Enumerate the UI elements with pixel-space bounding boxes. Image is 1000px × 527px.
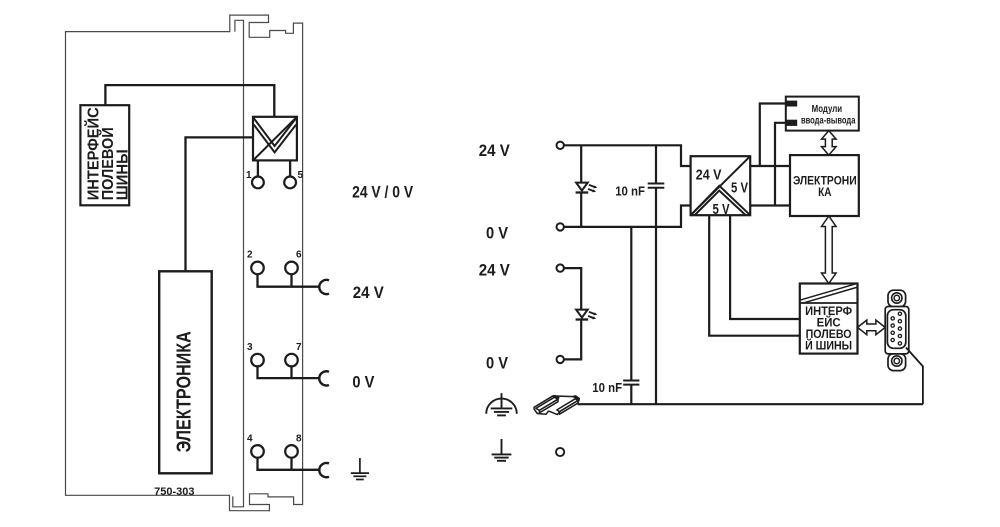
contact 6 xyxy=(285,250,302,275)
fieldbus interface box (left) xyxy=(80,105,131,205)
svg-text:1: 1 xyxy=(246,170,252,181)
shield clamp icon xyxy=(534,396,579,415)
svg-text:ЭЛЕКТРОНИКА: ЭЛЕКТРОНИКА xyxy=(173,331,196,452)
svg-text:6: 6 xyxy=(296,250,302,261)
wire converter bottom to fieldbus box inner xyxy=(730,215,800,319)
wire io modules pin1 xyxy=(760,104,786,167)
power jumper contact row 3/7 xyxy=(319,371,329,385)
dsub connector xyxy=(885,290,909,370)
svg-text:10 nF: 10 nF xyxy=(615,184,645,199)
io modules box xyxy=(786,97,859,131)
wires filter to contacts 1 and 5 xyxy=(258,160,290,176)
electronics box right xyxy=(790,155,859,216)
module internal separator line xyxy=(233,20,244,507)
svg-text:24 V: 24 V xyxy=(696,167,722,183)
LED D1 branch wire xyxy=(580,145,582,227)
svg-text:7: 7 xyxy=(296,342,302,353)
ground symbol bottom left xyxy=(492,439,512,461)
svg-text:4: 4 xyxy=(247,433,253,444)
svg-text:5 V: 5 V xyxy=(731,181,748,197)
svg-text:0 V: 0 V xyxy=(486,225,508,243)
svg-text:750-303: 750-303 xyxy=(154,486,194,498)
svg-text:КА: КА xyxy=(818,187,831,199)
wire row 3/7 xyxy=(258,366,321,378)
svg-text:Й ШИНЫ: Й ШИНЫ xyxy=(805,338,852,353)
svg-text:3: 3 xyxy=(247,342,253,353)
svg-text:24 V: 24 V xyxy=(353,284,384,302)
wire 24V group2 to LED branch xyxy=(564,268,581,309)
contact 1 xyxy=(246,170,264,188)
contact 5 xyxy=(284,170,303,188)
svg-text:ЭЛЕКТРОНИ: ЭЛЕКТРОНИ xyxy=(793,175,857,187)
terminal bottom left xyxy=(556,448,564,456)
capacitor C2 10nF xyxy=(623,227,639,404)
earth rail wire xyxy=(578,403,923,405)
contact 7 xyxy=(285,342,302,367)
wire 0V group1 to converter xyxy=(564,206,691,227)
svg-text:10 nF: 10 nF xyxy=(592,380,622,395)
LED D2 xyxy=(576,310,598,320)
ground symbol row 4/8 xyxy=(351,458,369,480)
DC converter box xyxy=(691,156,751,218)
wire electronics box to filter xyxy=(186,137,254,271)
svg-text:ввода-вывода: ввода-вывода xyxy=(801,115,856,126)
svg-text:24 V / 0 V: 24 V / 0 V xyxy=(352,183,413,201)
terminal 0V group2 xyxy=(557,356,564,363)
arrow io modules to electronics xyxy=(822,131,837,156)
svg-text:2: 2 xyxy=(247,250,253,261)
wire converter bottom to fieldbus box outer xyxy=(709,215,800,336)
svg-text:Модули: Модули xyxy=(812,104,843,115)
LED D1 xyxy=(576,183,598,193)
wire converter to electronics top xyxy=(750,165,790,167)
contact 8 xyxy=(285,433,302,457)
svg-text:24 V: 24 V xyxy=(479,142,510,160)
svg-text:5 V: 5 V xyxy=(713,202,730,218)
wire dsub to earth rail xyxy=(906,348,923,405)
svg-text:0 V: 0 V xyxy=(352,374,374,392)
power jumper contact row 4/8 xyxy=(319,463,329,477)
svg-text:8: 8 xyxy=(296,433,302,444)
filter box xyxy=(253,117,297,161)
contact 4 xyxy=(247,433,264,457)
svg-text:0 V: 0 V xyxy=(486,355,508,373)
wire fieldbus box to filter xyxy=(105,85,274,117)
terminal 24V group2 xyxy=(557,264,564,271)
module outline 750-303 housing xyxy=(66,15,303,511)
wire io modules pin2 xyxy=(775,123,786,206)
svg-text:5: 5 xyxy=(298,170,304,181)
svg-text:ШИНЫ: ШИНЫ xyxy=(114,149,131,200)
wire 24V group1 to converter xyxy=(564,145,691,166)
wire row 4/8 xyxy=(258,458,321,470)
electronics box (left) xyxy=(159,271,212,473)
svg-text:24 V: 24 V xyxy=(479,262,510,280)
contact 3 xyxy=(247,342,264,367)
arrow electronics to fieldbus interface xyxy=(822,216,837,284)
terminal 0V group1 xyxy=(557,223,564,230)
arrow fieldbus interface to dsub xyxy=(858,320,886,335)
contact 2 xyxy=(247,250,264,275)
capacitor C1 10nF xyxy=(648,145,665,404)
wire LED branch to 0V group2 xyxy=(564,320,581,360)
terminal 24V group1 xyxy=(557,142,564,149)
fieldbus interface box right xyxy=(800,284,858,354)
wire converter to electronics bottom xyxy=(750,204,790,206)
shield earth symbol xyxy=(486,393,517,415)
power jumper contact row 2/6 xyxy=(319,280,329,294)
wire row 2/6 xyxy=(258,274,321,287)
